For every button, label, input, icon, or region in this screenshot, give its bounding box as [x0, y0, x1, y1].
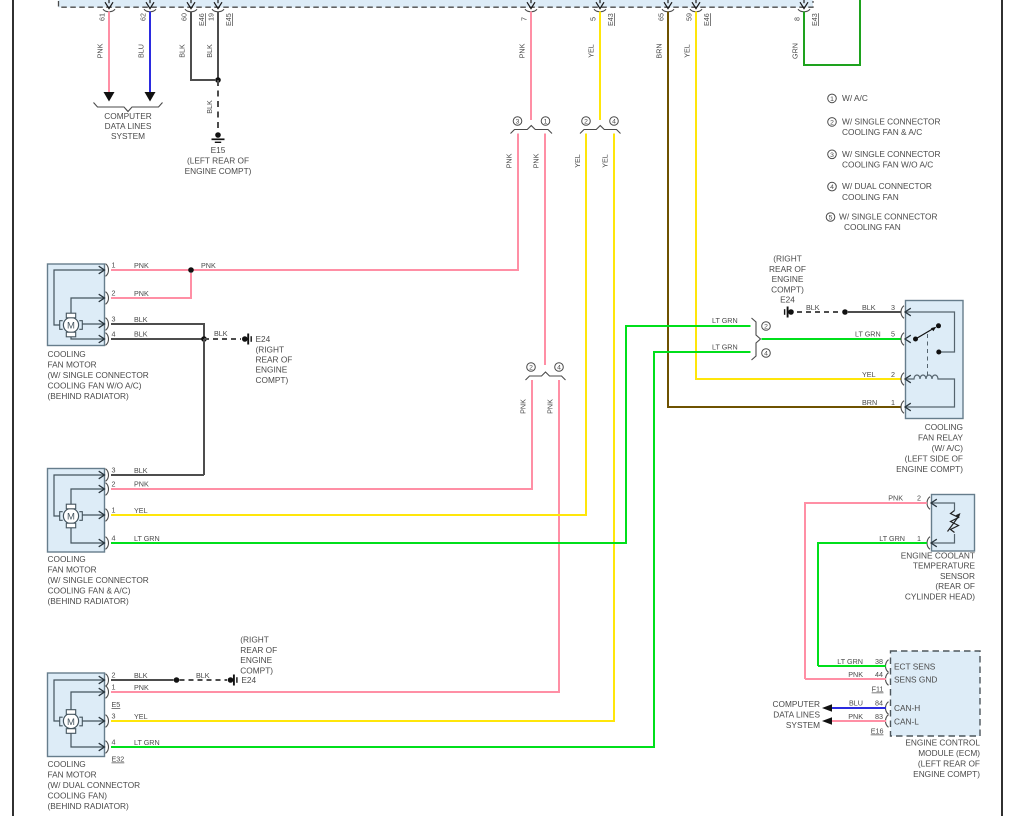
svg-text:4: 4 [764, 351, 768, 358]
label E16 [871, 727, 884, 736]
label relay pin2 [862, 370, 895, 379]
wire PNK to ECT pin2 [805, 494, 927, 680]
wire PNK pin7 [518, 12, 532, 121]
wire PNK pin61 [96, 12, 110, 94]
label E5 [112, 700, 121, 709]
label E24 (relay) [769, 254, 806, 305]
svg-text:PNK: PNK [848, 670, 863, 679]
svg-text:(W/ SINGLE CONNECTOR: (W/ SINGLE CONNECTOR [48, 575, 149, 585]
svg-text:W/ SINGLE CONNECTOR: W/ SINGLE CONNECTOR [842, 149, 941, 159]
svg-text:1: 1 [112, 261, 116, 270]
svg-text:E24: E24 [256, 334, 271, 344]
svg-text:ENGINE COOLANT: ENGINE COOLANT [901, 551, 975, 561]
svg-text:COOLING FAN: COOLING FAN [842, 192, 899, 202]
motor M3 symbol [60, 710, 83, 734]
wire BLU ECM84 [832, 699, 886, 709]
wire M3 pin3 YEL [111, 712, 614, 721]
arrow computer data lines (BLU) [822, 704, 832, 712]
relay switch arm [916, 327, 937, 339]
svg-text:(RIGHT: (RIGHT [256, 344, 285, 354]
svg-text:GRN: GRN [791, 43, 800, 59]
cooling fan motor M3 box [48, 673, 105, 757]
motor M2 symbol [60, 504, 83, 528]
pin 62 [139, 0, 157, 21]
svg-text:TEMPERATURE: TEMPERATURE [913, 561, 976, 571]
svg-text:2: 2 [830, 119, 834, 126]
svg-text:2: 2 [112, 671, 116, 680]
brace YEL split [580, 126, 621, 134]
wire LT GRN to ECT pin1 [818, 534, 927, 666]
svg-text:LT GRN: LT GRN [134, 738, 160, 747]
wire BLK to ground E24 (M3) [180, 671, 228, 680]
svg-text:3: 3 [112, 712, 116, 721]
node 4 marker b [555, 363, 564, 372]
wire GRN pin8 [791, 0, 861, 65]
svg-text:BLK: BLK [205, 100, 214, 114]
pin 61 [98, 0, 116, 21]
svg-text:2: 2 [764, 324, 768, 331]
wire M3 pin1 PNK [111, 683, 559, 692]
wire PNK branch1 down [532, 134, 546, 366]
pin 19 [207, 0, 234, 26]
svg-text:5: 5 [829, 215, 833, 222]
svg-text:BLU: BLU [849, 699, 863, 708]
ECT sensor box [932, 495, 975, 552]
wire BLK dashed to E24 (relay) [797, 303, 842, 312]
svg-text:(REAR OF: (REAR OF [935, 581, 975, 591]
label relay [896, 422, 963, 474]
svg-text:3: 3 [891, 303, 895, 312]
svg-text:COMPUTER: COMPUTER [773, 699, 820, 709]
svg-text:PNK: PNK [519, 399, 528, 414]
svg-text:ENGINE CONTROL: ENGINE CONTROL [905, 738, 980, 748]
pin 60 [180, 0, 207, 26]
svg-text:YEL: YEL [683, 44, 692, 58]
wire YEL pin5 [587, 12, 601, 121]
svg-text:61: 61 [98, 13, 107, 21]
svg-text:W/ DUAL CONNECTOR: W/ DUAL CONNECTOR [842, 181, 932, 191]
svg-text:E24: E24 [241, 675, 256, 685]
svg-text:ENGINE COMPT): ENGINE COMPT) [185, 166, 252, 176]
wire BLK pin60 [178, 12, 216, 81]
left page border [12, 0, 14, 816]
brace PNK split 2 [526, 372, 566, 380]
wire PNK ECM83 [832, 712, 886, 721]
wire M2 pin2 PNK [111, 480, 532, 490]
motor M3 pin 1 [99, 683, 116, 699]
wire BRN pin65 [655, 12, 902, 408]
ground E15 [212, 132, 225, 142]
wire LT GRN ECM38 segment [818, 657, 886, 666]
wire PNK branch2 [112, 380, 532, 489]
junction BLK [215, 77, 221, 83]
svg-text:M: M [67, 717, 75, 728]
svg-text:2: 2 [917, 494, 921, 503]
wire M3 pin2 BLK [111, 671, 174, 680]
svg-text:COMPUTER: COMPUTER [104, 111, 151, 121]
svg-text:E45: E45 [224, 13, 233, 26]
arrow to data lines (BLU) [145, 92, 156, 102]
svg-text:LT GRN: LT GRN [712, 316, 738, 325]
wire LT GRN to relay [762, 338, 902, 340]
svg-text:2: 2 [529, 365, 533, 372]
svg-text:(W/ DUAL CONNECTOR: (W/ DUAL CONNECTOR [48, 780, 141, 790]
svg-text:SENS GND: SENS GND [894, 675, 937, 685]
svg-text:BLK: BLK [134, 330, 148, 339]
svg-text:LT GRN: LT GRN [712, 343, 738, 352]
svg-text:1: 1 [112, 683, 116, 692]
module box (top, cut off) [59, 0, 814, 8]
ECT pin 1 [927, 537, 937, 550]
svg-text:COOLING: COOLING [48, 349, 86, 359]
svg-text:4: 4 [112, 330, 116, 339]
motor M2 internal wires [54, 475, 104, 543]
svg-text:5: 5 [589, 17, 598, 21]
motor M2 pin 3 [99, 466, 116, 482]
cooling fan motor M1 box [48, 264, 105, 346]
svg-text:PNK: PNK [532, 153, 541, 168]
svg-text:COOLING FAN & A/C: COOLING FAN & A/C [842, 127, 922, 137]
svg-text:84: 84 [875, 699, 883, 708]
svg-text:(LEFT SIDE OF: (LEFT SIDE OF [905, 454, 963, 464]
motor M2 pin 1 [99, 506, 116, 522]
svg-text:E43: E43 [606, 13, 615, 26]
svg-text:5: 5 [891, 330, 895, 339]
svg-text:M: M [67, 511, 75, 522]
relay pin 2 [901, 373, 911, 386]
motor M3 pin 2 [99, 671, 116, 687]
svg-text:YEL: YEL [134, 506, 148, 515]
wire BLU pin62 [137, 12, 151, 94]
svg-text:W/ A/C: W/ A/C [842, 93, 868, 103]
svg-text:DATA LINES: DATA LINES [773, 710, 820, 720]
motor M3 internal wires [54, 680, 104, 747]
svg-text:BLK: BLK [205, 44, 214, 58]
ECT pin 2 [927, 497, 937, 510]
motor M1 internal wires [54, 270, 104, 339]
svg-text:DATA LINES: DATA LINES [105, 121, 152, 131]
svg-text:COOLING: COOLING [48, 554, 86, 564]
svg-text:LT GRN: LT GRN [134, 534, 160, 543]
svg-text:2: 2 [891, 370, 895, 379]
node 3 marker [513, 117, 522, 126]
wire BLK pin19 [205, 12, 218, 81]
node 4 marker [610, 117, 619, 126]
svg-text:19: 19 [207, 13, 216, 21]
ECM pin 84 [886, 702, 889, 715]
wire BLK to ground E15 [205, 80, 218, 131]
svg-text:4: 4 [557, 365, 561, 372]
wire M3 pin4 LT GRN [111, 352, 751, 747]
svg-text:PNK: PNK [96, 43, 105, 58]
svg-text:FAN MOTOR: FAN MOTOR [48, 770, 97, 780]
svg-text:YEL: YEL [134, 712, 148, 721]
ECT internal wiring [932, 503, 955, 543]
relay contact dots [913, 323, 941, 354]
svg-text:REAR OF: REAR OF [256, 355, 293, 365]
svg-text:3: 3 [830, 152, 834, 159]
svg-text:MODULE (ECM): MODULE (ECM) [918, 748, 980, 758]
svg-text:BLK: BLK [178, 44, 187, 58]
svg-text:PNK: PNK [888, 494, 903, 503]
svg-text:3: 3 [112, 466, 116, 475]
svg-text:1: 1 [891, 398, 895, 407]
node 2 marker c [762, 322, 771, 331]
relay dashed link [927, 334, 929, 375]
svg-text:ECT SENS: ECT SENS [894, 662, 936, 672]
svg-text:PNK: PNK [134, 261, 149, 270]
svg-text:4: 4 [112, 534, 116, 543]
junction M3 BLK [174, 677, 180, 683]
label E24 (M3) [240, 635, 277, 686]
svg-text:(W/ A/C): (W/ A/C) [932, 443, 964, 453]
svg-text:ENGINE: ENGINE [772, 274, 804, 284]
svg-text:PNK: PNK [505, 153, 514, 168]
ECM pin names [894, 662, 937, 727]
brace PNK split [511, 126, 553, 134]
svg-text:1: 1 [917, 534, 921, 543]
svg-text:PNK: PNK [134, 683, 149, 692]
label F11 [872, 685, 884, 694]
wire M2 pin3 BLK [111, 466, 204, 475]
wire M1 pin2 PNK [111, 273, 191, 298]
svg-text:COOLING FAN: COOLING FAN [844, 222, 901, 232]
svg-text:BLK: BLK [214, 329, 228, 338]
svg-text:YEL: YEL [573, 154, 582, 168]
relay coil [906, 375, 955, 407]
ECT thermistor [948, 511, 961, 533]
motor M3 pin 4 [99, 738, 116, 754]
svg-text:2: 2 [112, 480, 116, 489]
svg-text:FAN MOTOR: FAN MOTOR [48, 565, 97, 575]
svg-text:ENGINE COMPT): ENGINE COMPT) [896, 464, 963, 474]
svg-text:E5: E5 [112, 700, 121, 709]
svg-text:COOLING FAN): COOLING FAN) [48, 791, 108, 801]
wire PNK branch3 [194, 134, 518, 271]
svg-text:PNK: PNK [134, 289, 149, 298]
label ECM [905, 738, 980, 780]
label ECT [901, 551, 976, 602]
svg-text:59: 59 [685, 13, 694, 21]
wire BLK relay pin3 [848, 303, 901, 312]
motor M1 symbol [60, 313, 83, 337]
svg-text:ENGINE COMPT): ENGINE COMPT) [913, 769, 980, 779]
svg-text:E46: E46 [197, 13, 206, 26]
wire M1 pin4 BLK [111, 330, 204, 340]
svg-text:BLK: BLK [134, 671, 148, 680]
svg-text:7: 7 [520, 17, 529, 21]
motor M1 pin 1 [99, 261, 116, 277]
svg-text:E43: E43 [810, 13, 819, 26]
svg-text:(BEHIND RADIATOR): (BEHIND RADIATOR) [48, 801, 130, 811]
svg-text:BRN: BRN [862, 398, 877, 407]
svg-text:65: 65 [657, 13, 666, 21]
legend notes 1-5 [826, 93, 940, 232]
label M3 [48, 759, 141, 811]
wire YEL branch4 [112, 134, 614, 722]
svg-text:PNK: PNK [546, 399, 555, 414]
svg-text:CAN-L: CAN-L [894, 717, 919, 727]
svg-text:BLK: BLK [134, 466, 148, 475]
motor M2 pin 2 [99, 480, 116, 496]
label E15 [185, 145, 252, 176]
node 4 marker c [762, 349, 771, 358]
pin 65 [657, 0, 675, 21]
svg-text:YEL: YEL [587, 44, 596, 58]
svg-text:COOLING: COOLING [925, 422, 963, 432]
ground E24 (relay) [785, 307, 794, 318]
svg-text:YEL: YEL [862, 370, 876, 379]
svg-text:SYSTEM: SYSTEM [786, 720, 820, 730]
svg-text:LT GRN: LT GRN [879, 534, 905, 543]
relay pin 3 [901, 306, 911, 319]
svg-text:60: 60 [180, 13, 189, 21]
svg-text:4: 4 [612, 119, 616, 126]
wire PNK ECM44 segment [805, 670, 886, 679]
svg-text:COOLING FAN W/O A/C): COOLING FAN W/O A/C) [48, 381, 142, 391]
svg-text:ENGINE: ENGINE [256, 365, 288, 375]
svg-text:COMPT): COMPT) [771, 284, 804, 294]
ECM box [891, 651, 981, 736]
label computer data lines system [104, 111, 152, 141]
svg-text:62: 62 [139, 13, 148, 21]
svg-text:(LEFT REAR OF: (LEFT REAR OF [918, 759, 980, 769]
wire M2 pin1 YEL [111, 506, 586, 515]
svg-text:YEL: YEL [601, 154, 610, 168]
svg-text:BRN: BRN [655, 43, 664, 58]
junction M1 PNK [188, 267, 194, 273]
svg-text:44: 44 [875, 670, 883, 679]
ECM pin 38 [886, 660, 889, 673]
label relay pin5 [855, 330, 895, 339]
relay pin 5 [901, 333, 911, 346]
node 1 marker [541, 117, 550, 126]
label LT GRN branch2 [712, 316, 738, 325]
svg-text:38: 38 [875, 657, 883, 666]
svg-text:2: 2 [584, 119, 588, 126]
svg-text:1: 1 [830, 96, 834, 103]
wire BLK to ground E24 (M1) [204, 329, 241, 339]
svg-text:CYLINDER HEAD): CYLINDER HEAD) [905, 591, 975, 601]
label computer data lines (ECM) [773, 699, 821, 730]
svg-text:PNK: PNK [201, 261, 216, 270]
svg-text:4: 4 [112, 738, 116, 747]
label LT GRN branch4 [712, 343, 738, 352]
svg-text:E32: E32 [112, 755, 125, 764]
arrow to data lines (PNK) [104, 92, 115, 102]
brace LT GRN merge [752, 318, 761, 360]
svg-text:BLK: BLK [806, 303, 820, 312]
svg-text:CAN-H: CAN-H [894, 703, 920, 713]
wire M1 pin1 PNK [111, 261, 216, 270]
ECM pin 44 [886, 673, 889, 686]
svg-text:3: 3 [112, 315, 116, 324]
svg-text:BLK: BLK [134, 315, 148, 324]
right page border [1001, 0, 1003, 816]
svg-text:(BEHIND RADIATOR): (BEHIND RADIATOR) [48, 391, 130, 401]
motor M3 pin 3 [99, 712, 116, 728]
svg-text:BLK: BLK [862, 303, 876, 312]
label E24 (M1) [256, 334, 293, 385]
pin 59 [685, 0, 712, 26]
motor M2 pin 4 [99, 534, 116, 550]
node 2 marker [582, 117, 591, 126]
svg-text:E15: E15 [211, 145, 226, 155]
wire M2 pin4 LT GRN [111, 326, 751, 543]
ground E24 (M3) [228, 675, 237, 686]
svg-text:W/ SINGLE CONNECTOR: W/ SINGLE CONNECTOR [842, 117, 941, 127]
wire M1 pin3 BLK [111, 315, 204, 339]
svg-text:E16: E16 [871, 727, 884, 736]
wire YEL branch2 [112, 134, 586, 516]
pin 5 [589, 0, 616, 26]
relay internal contact wiring [906, 312, 955, 352]
svg-text:F11: F11 [872, 685, 884, 694]
svg-text:W/ SINGLE CONNECTOR: W/ SINGLE CONNECTOR [839, 212, 938, 222]
svg-text:PNK: PNK [518, 43, 527, 58]
svg-text:(BEHIND RADIATOR): (BEHIND RADIATOR) [48, 596, 130, 606]
wire YEL pin59 [683, 12, 902, 380]
brace computer data lines [94, 103, 163, 112]
pin 8 [793, 0, 820, 26]
svg-text:COOLING: COOLING [48, 759, 86, 769]
svg-text:COOLING FAN & A/C): COOLING FAN & A/C) [48, 586, 131, 596]
pin 7 [520, 0, 538, 21]
wire BLK M1-M2 [203, 339, 205, 475]
svg-text:FAN RELAY: FAN RELAY [918, 433, 963, 443]
svg-text:4: 4 [830, 184, 834, 191]
label M2 [48, 554, 149, 606]
motor M1 pin 2 [99, 289, 116, 305]
svg-text:E46: E46 [702, 13, 711, 26]
ground E24 (M1) [242, 334, 251, 345]
svg-text:(RIGHT: (RIGHT [240, 635, 269, 645]
svg-text:BLK: BLK [196, 671, 210, 680]
svg-text:2: 2 [112, 289, 116, 298]
svg-text:1: 1 [112, 506, 116, 515]
svg-text:E24: E24 [780, 295, 795, 305]
label E32 [112, 755, 125, 764]
arrow computer data lines (PNK) [822, 717, 832, 725]
node 2 marker b [527, 363, 536, 372]
ECM pin 83 [886, 715, 889, 728]
svg-text:COOLING FAN W/O A/C: COOLING FAN W/O A/C [842, 160, 933, 170]
relay pin 1 [901, 401, 911, 414]
wire PNK branch4 [112, 380, 559, 692]
cooling fan motor M2 box [48, 469, 105, 553]
svg-text:(W/ SINGLE CONNECTOR: (W/ SINGLE CONNECTOR [48, 370, 149, 380]
svg-text:(LEFT REAR OF: (LEFT REAR OF [187, 156, 249, 166]
svg-text:8: 8 [793, 17, 802, 21]
svg-text:(RIGHT: (RIGHT [773, 254, 802, 264]
svg-text:REAR OF: REAR OF [240, 645, 277, 655]
svg-text:83: 83 [875, 712, 883, 721]
svg-text:3: 3 [516, 119, 520, 126]
svg-text:BLU: BLU [137, 44, 146, 58]
svg-text:ENGINE: ENGINE [240, 655, 272, 665]
svg-text:REAR OF: REAR OF [769, 264, 806, 274]
junction M1 BLK [201, 336, 207, 342]
svg-text:FAN MOTOR: FAN MOTOR [48, 360, 97, 370]
svg-text:PNK: PNK [848, 712, 863, 721]
svg-text:M: M [67, 320, 75, 331]
svg-text:COMPT): COMPT) [240, 665, 273, 675]
svg-text:1: 1 [544, 119, 548, 126]
motor M1 pin 3 [99, 315, 116, 331]
svg-text:SENSOR: SENSOR [940, 571, 975, 581]
svg-text:LT GRN: LT GRN [837, 657, 863, 666]
label M1 [48, 349, 149, 401]
